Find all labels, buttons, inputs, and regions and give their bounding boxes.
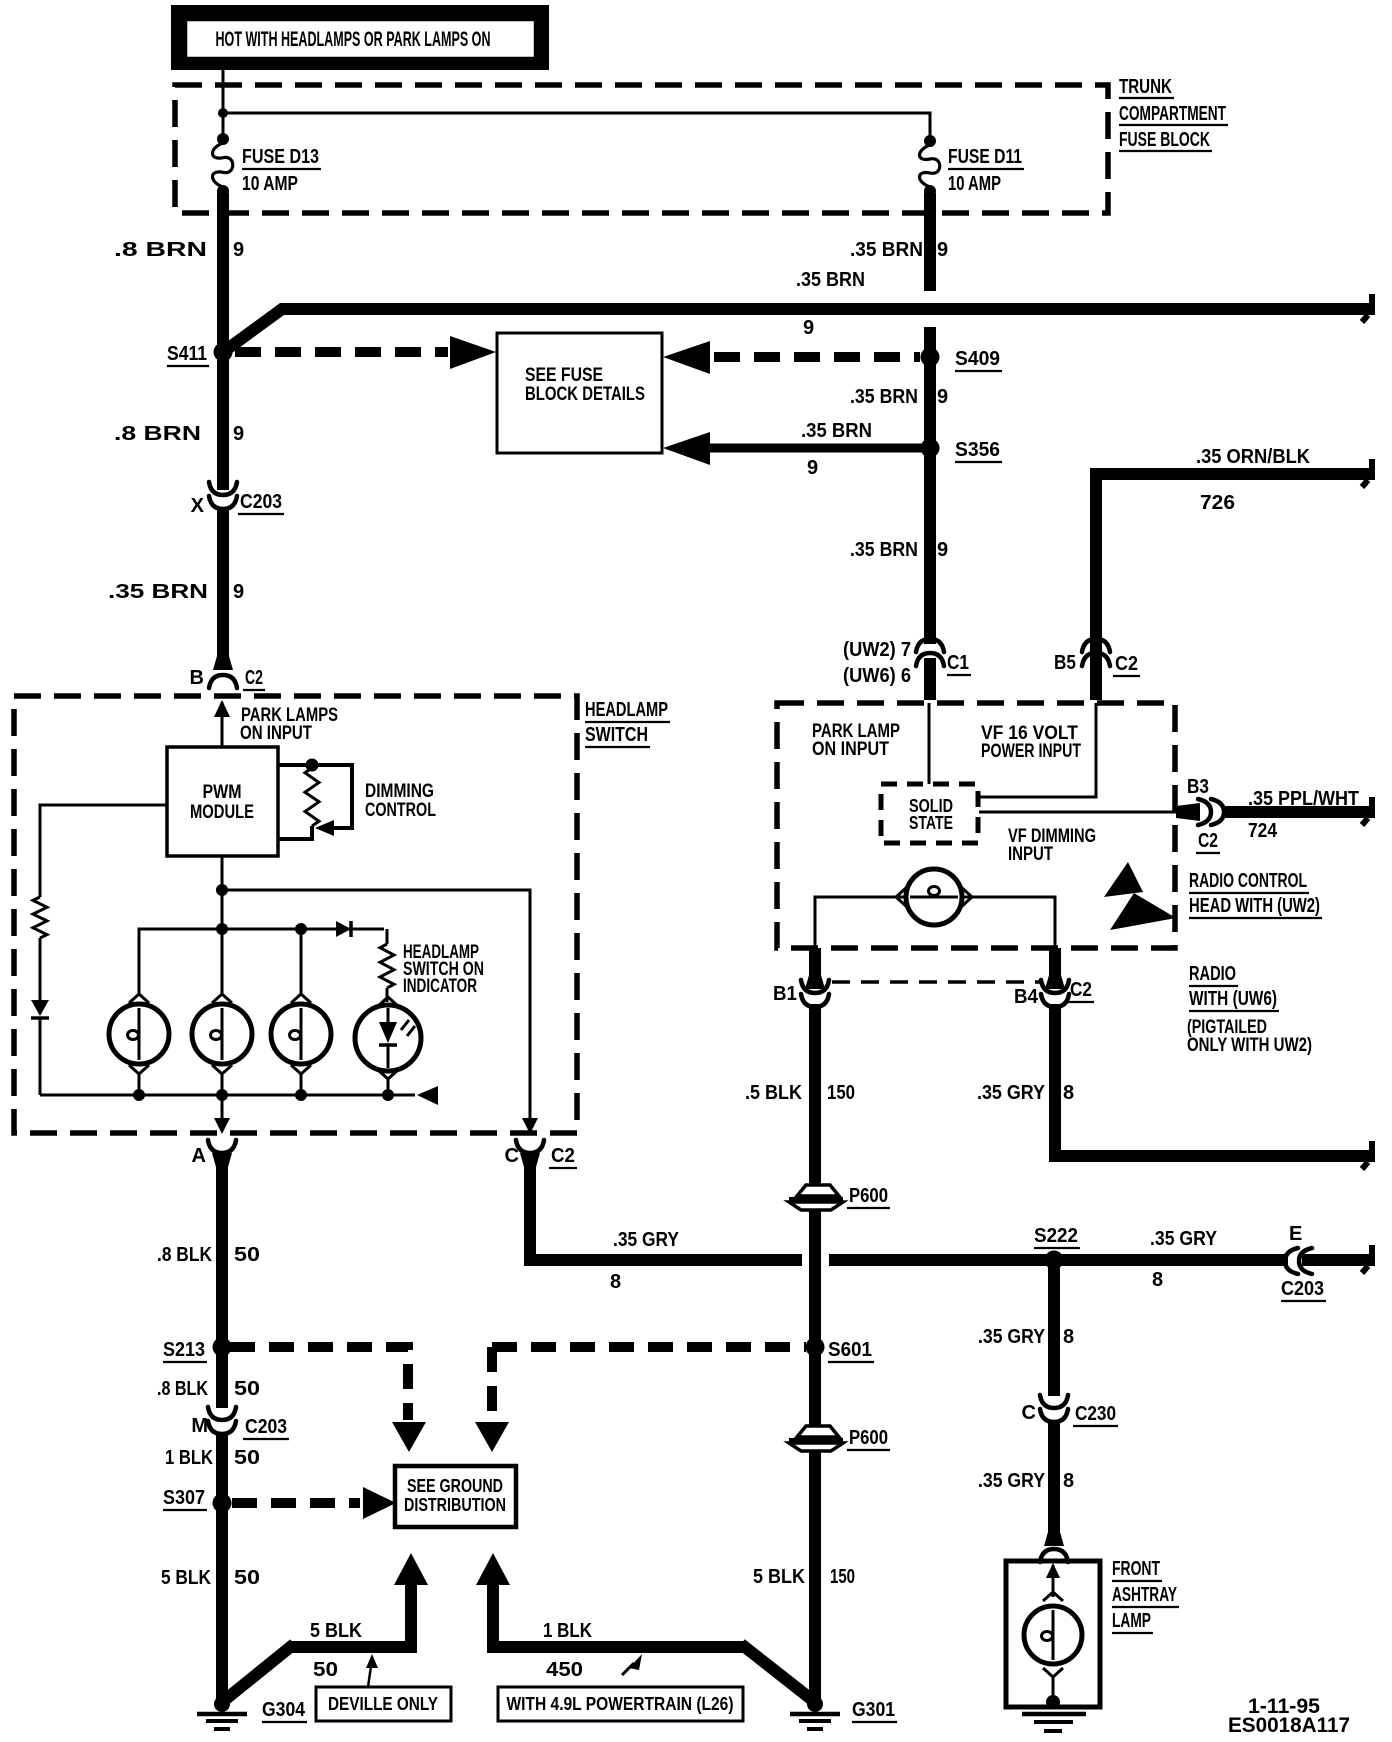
arrowhead up to ground distribution (right) xyxy=(476,1553,510,1585)
wire stub from B5 into radio box xyxy=(1090,658,1102,700)
svg-text:9: 9 xyxy=(803,317,814,339)
svg-text:9: 9 xyxy=(937,239,948,261)
off-page hook right xyxy=(1369,1245,1375,1262)
svg-text:150: 150 xyxy=(830,1566,855,1588)
wire .35 BRN 9 from fuse D11 down xyxy=(924,193,936,291)
svg-text:E: E xyxy=(1289,1223,1302,1245)
wire VF lamp to B4 xyxy=(962,897,1055,948)
wire from PWM module left to resistor xyxy=(40,805,167,897)
chevron below ashtray bulb xyxy=(1043,1668,1063,1677)
wire .35 PPL/WHT 724 to right edge xyxy=(1222,806,1375,818)
wire .35 GRY 8 from E C203 to right edge xyxy=(1302,1254,1375,1266)
connector at front ashtray lamp xyxy=(1040,1549,1068,1562)
svg-text:C2: C2 xyxy=(1198,830,1218,852)
wire .5 BLK 150 / 5 BLK 150 from B1 to G301 xyxy=(809,1004,821,1699)
wire .35 BRN 9 from S356 to C1 xyxy=(924,448,936,644)
lamp feed bus xyxy=(139,929,384,994)
svg-text:(UW2) 7: (UW2) 7 xyxy=(843,639,911,661)
svg-text:50: 50 xyxy=(234,1378,260,1400)
svg-text:726: 726 xyxy=(1200,492,1235,514)
svg-text:HOT WITH HEADLAMPS OR PARK LAM: HOT WITH HEADLAMPS OR PARK LAMPS ON xyxy=(216,28,491,51)
svg-text:WITH 4.9L POWERTRAIN (L26): WITH 4.9L POWERTRAIN (L26) xyxy=(507,1694,734,1714)
svg-text:S409: S409 xyxy=(955,348,1000,370)
svg-text:S601: S601 xyxy=(828,1339,872,1361)
junction fuse D13 bottom xyxy=(217,185,229,197)
svg-text:A: A xyxy=(192,1145,206,1167)
wire common bus to A output xyxy=(221,1095,224,1122)
arrowhead up into lamp xyxy=(1046,1563,1060,1578)
wire LED to common bus xyxy=(387,1079,390,1095)
svg-text:POWER INPUT: POWER INPUT xyxy=(981,741,1081,762)
svg-text:FUSE BLOCK: FUSE BLOCK xyxy=(1119,129,1210,151)
wire ashtray bulb to ground xyxy=(1052,1677,1055,1700)
wire resistor bottom to PWM module xyxy=(278,826,312,839)
svg-text:8: 8 xyxy=(610,1271,621,1293)
svg-text:C2: C2 xyxy=(551,1145,575,1167)
svg-text:10 AMP: 10 AMP xyxy=(242,173,298,195)
svg-text:FUSE D13: FUSE D13 xyxy=(242,146,319,168)
splice S213 xyxy=(213,1338,232,1357)
arrowhead down to ground distribution xyxy=(475,1422,509,1452)
junction lamp 3 feed xyxy=(295,923,307,935)
svg-text:CONTROL: CONTROL xyxy=(365,800,436,821)
headlamp switch (dashed box) xyxy=(14,696,577,1133)
junction resistor top xyxy=(306,759,319,772)
svg-text:S411: S411 xyxy=(167,343,207,365)
svg-text:8: 8 xyxy=(1063,1082,1074,1104)
arrowhead down at C xyxy=(522,1118,538,1134)
wire .35 GRY 8 continues xyxy=(829,1254,1288,1266)
junction fuse D13 top xyxy=(217,133,229,145)
junction xyxy=(382,1089,394,1101)
connector C203 (X) xyxy=(209,482,237,495)
off-page hook right xyxy=(1369,459,1375,476)
svg-text:150: 150 xyxy=(827,1082,855,1104)
PWM module box xyxy=(167,747,278,856)
wire park lamps on input xyxy=(221,702,224,748)
grommet P600 xyxy=(797,1185,839,1196)
svg-text:9: 9 xyxy=(937,539,948,561)
svg-text:.35 GRY: .35 GRY xyxy=(613,1229,680,1251)
dashed wire down xyxy=(487,1347,497,1420)
svg-text:.35 GRY: .35 GRY xyxy=(1150,1228,1218,1250)
svg-text:8: 8 xyxy=(1063,1326,1074,1348)
wire resistor to diode xyxy=(39,938,42,1000)
svg-text:INPUT: INPUT xyxy=(1008,844,1053,865)
resistor dimming control potentiometer xyxy=(305,768,319,826)
svg-text:5 BLK: 5 BLK xyxy=(161,1567,211,1589)
svg-text:MODULE: MODULE xyxy=(190,802,254,823)
svg-text:1 BLK: 1 BLK xyxy=(543,1620,592,1642)
off-page hook right xyxy=(1369,797,1375,814)
off-page hook right xyxy=(1369,1141,1375,1158)
svg-text:S213: S213 xyxy=(163,1339,205,1361)
ashtray lamp bulb xyxy=(1024,1606,1082,1664)
diagonal wire to G304 xyxy=(226,1644,294,1699)
diode left branch (cathode down) xyxy=(31,1000,49,1016)
svg-text:B1: B1 xyxy=(773,983,797,1005)
LED triangle xyxy=(379,1022,397,1043)
svg-text:.35 GRY: .35 GRY xyxy=(978,1470,1046,1492)
dashed pigtail line between B1 and B4 xyxy=(832,980,1040,984)
wire .35 BRN 9 from S409 to S356 xyxy=(924,357,936,448)
arrowhead up to ground distribution (left) xyxy=(394,1553,428,1585)
svg-text:P600: P600 xyxy=(849,1185,888,1207)
lamp common bus xyxy=(40,1094,415,1097)
fuse D13 xyxy=(213,143,233,187)
wire .8 BLK 50 from S213 to M C203 xyxy=(216,1347,228,1408)
svg-text:G304: G304 xyxy=(262,1699,306,1721)
svg-text:SEE FUSE: SEE FUSE xyxy=(525,365,603,386)
arrowhead xyxy=(366,1654,378,1668)
splice S409 xyxy=(921,348,940,367)
connector B C2 at headlamp switch xyxy=(209,675,237,688)
svg-text:SEE GROUND: SEE GROUND xyxy=(407,1476,503,1496)
diagonal wire to G301 xyxy=(741,1644,811,1699)
svg-text:450: 450 xyxy=(546,1659,583,1681)
svg-text:S307: S307 xyxy=(163,1487,205,1509)
splice S411 xyxy=(214,343,233,362)
dashed arrow from S409 to fuse block details xyxy=(714,352,920,362)
svg-text:DEVILLE ONLY: DEVILLE ONLY xyxy=(328,1694,438,1714)
svg-text:8: 8 xyxy=(1152,1269,1163,1291)
splice S307 xyxy=(213,1494,232,1513)
wire .8 BRN 9 from S411 to C203 xyxy=(217,352,229,490)
power feed label box HOT WITH HEADLAMPS OR PARK LAMPS ON xyxy=(171,5,549,70)
junction fuse D11 bottom xyxy=(924,185,936,197)
wire VF dimming input to B3 xyxy=(979,811,1178,814)
svg-text:B3: B3 xyxy=(1187,776,1209,798)
park lamp bulb 1 xyxy=(109,1004,169,1064)
wire .35 BRN 9 from C203 to headlamp switch xyxy=(217,508,229,668)
splice S601 xyxy=(806,1338,825,1357)
wire lamp3 to common bus xyxy=(300,1074,303,1095)
svg-text:50: 50 xyxy=(234,1567,260,1589)
arrowhead up park lamps on input xyxy=(214,700,230,717)
ESD warning symbol triangle 2 xyxy=(1110,893,1176,930)
wire park lamp on input to solid state xyxy=(928,703,931,784)
solid state box xyxy=(881,784,978,843)
wire VF lamp to B1 xyxy=(815,897,906,948)
connector E C203 xyxy=(1285,1248,1298,1274)
wire end flare at B xyxy=(213,656,233,670)
ground under ashtray lamp xyxy=(1022,1712,1086,1717)
svg-text:9: 9 xyxy=(233,239,244,261)
svg-text:M: M xyxy=(191,1415,208,1437)
svg-text:STATE: STATE xyxy=(909,813,953,833)
splice S222 xyxy=(1045,1251,1064,1270)
svg-text:.35 GRY: .35 GRY xyxy=(978,1326,1046,1348)
svg-text:8: 8 xyxy=(1063,1470,1074,1492)
svg-text:9: 9 xyxy=(807,457,818,479)
wire .35 GRY 8 from C to S222 xyxy=(530,1160,802,1260)
junction xyxy=(216,884,228,896)
ground G304 xyxy=(214,1696,230,1712)
ESD warning symbol triangle 1 xyxy=(1104,862,1143,897)
svg-text:.35 BRN: .35 BRN xyxy=(801,420,872,442)
front ashtray lamp box xyxy=(1006,1561,1100,1707)
wire dimming control loop xyxy=(278,765,352,828)
svg-text:724: 724 xyxy=(1248,820,1278,842)
wire VF 16 volt power input to solid state xyxy=(979,703,1096,797)
svg-text:G301: G301 xyxy=(852,1699,895,1721)
svg-text:.35 PPL/WHT: .35 PPL/WHT xyxy=(1248,788,1359,810)
svg-text:ASHTRAY: ASHTRAY xyxy=(1112,1584,1177,1606)
svg-text:ON INPUT: ON INPUT xyxy=(812,739,889,760)
svg-text:50: 50 xyxy=(234,1244,260,1266)
svg-text:COMPARTMENT: COMPARTMENT xyxy=(1119,103,1226,125)
box SEE GROUND DISTRIBUTION xyxy=(395,1466,516,1527)
wire .35 GRY 8 from B4 to right edge xyxy=(1055,1004,1375,1156)
grommet P600 xyxy=(797,1426,839,1437)
svg-text:RADIO CONTROL: RADIO CONTROL xyxy=(1189,870,1307,892)
resistor in headlamp switch left branch xyxy=(33,897,47,938)
svg-text:B4: B4 xyxy=(1014,986,1039,1008)
wire 5 BLK 50 deville xyxy=(289,1583,411,1647)
wire .35 GRY 8 from C230 to front ashtray lamp xyxy=(1048,1421,1060,1542)
connector C C2 at headlamp switch xyxy=(516,1140,544,1153)
svg-text:SWITCH: SWITCH xyxy=(585,724,648,746)
svg-text:S356: S356 xyxy=(955,439,1000,461)
svg-text:DIMMING: DIMMING xyxy=(365,781,434,802)
splice S356 xyxy=(921,439,940,458)
resistor headlamp switch on indicator xyxy=(380,944,394,988)
svg-text:FRONT: FRONT xyxy=(1112,1558,1160,1580)
arrowhead into box xyxy=(450,336,496,369)
svg-text:.35 BRN: .35 BRN xyxy=(850,539,918,561)
wire bus linking fuse D13 and fuse D11 tops xyxy=(223,113,930,141)
wire stub B1 xyxy=(809,948,821,986)
svg-text:9: 9 xyxy=(937,386,948,408)
junction fuse D11 top xyxy=(924,135,936,147)
svg-text:X: X xyxy=(191,495,205,517)
svg-text:.35 BRN: .35 BRN xyxy=(850,386,918,408)
arrowhead right to ground distribution xyxy=(363,1487,396,1519)
dashed wire S213 to ground distribution xyxy=(230,1347,408,1420)
svg-text:(UW6) 6: (UW6) 6 xyxy=(843,665,911,687)
wire 1 BLK 50 / 5 BLK 50 from M C203 to G304 xyxy=(216,1433,228,1699)
wire resistor to indicator LED xyxy=(386,988,389,1002)
wire 1 BLK 450 4.9L powertrain xyxy=(493,1583,746,1647)
junction xyxy=(218,108,228,118)
wire down to lamp 2 xyxy=(221,929,224,994)
svg-text:FUSE D11: FUSE D11 xyxy=(948,146,1022,168)
ground G301 xyxy=(807,1696,823,1712)
svg-text:C1: C1 xyxy=(947,652,969,674)
bus end arrowhead xyxy=(417,1086,438,1105)
connector B1 xyxy=(801,980,829,993)
box WITH 4.9L POWERTRAIN (L26) xyxy=(498,1687,743,1721)
svg-text:C203: C203 xyxy=(1281,1278,1324,1300)
wire stub B4 xyxy=(1049,948,1061,986)
dashed wire S601 to ground distribution xyxy=(492,1342,806,1352)
svg-text:HEAD WITH (UW2): HEAD WITH (UW2) xyxy=(1189,895,1320,917)
LED light rays xyxy=(401,1020,415,1036)
junction lamp 2 feed xyxy=(216,923,228,935)
box SEE FUSE BLOCK DETAILS xyxy=(497,333,662,453)
junction xyxy=(216,1089,228,1101)
svg-text:.35 BRN: .35 BRN xyxy=(796,269,865,291)
wire .35 ORN/BLK 726 from B5 C2 to right edge xyxy=(1096,474,1375,658)
chevron above ashtray bulb xyxy=(1043,1592,1063,1601)
park lamp bulb 3 xyxy=(271,1004,331,1064)
off-page hook right xyxy=(1369,294,1375,311)
svg-text:.35 ORN/BLK: .35 ORN/BLK xyxy=(1196,446,1311,468)
wire diode to indicator resistor xyxy=(386,929,389,944)
box DEVILLE ONLY xyxy=(316,1687,451,1721)
wire to C output of headlamp switch xyxy=(222,890,530,1122)
svg-text:C230: C230 xyxy=(1075,1403,1116,1425)
svg-text:RADIO: RADIO xyxy=(1189,963,1236,985)
junction at box bottom xyxy=(1046,1695,1060,1709)
junction xyxy=(133,1089,145,1101)
svg-text:5 BLK: 5 BLK xyxy=(753,1566,805,1588)
svg-text:.8 BLK: .8 BLK xyxy=(157,1244,212,1266)
arrowhead xyxy=(629,1654,642,1670)
svg-text:.8 BRN: .8 BRN xyxy=(114,423,201,445)
svg-text:.8 BLK: .8 BLK xyxy=(157,1378,208,1400)
wire into ashtray lamp xyxy=(1052,1565,1055,1597)
arrowhead into box xyxy=(663,432,710,465)
svg-text:.8 BRN: .8 BRN xyxy=(114,239,207,261)
svg-text:HEADLAMP: HEADLAMP xyxy=(585,699,668,721)
svg-text:DISTRIBUTION: DISTRIBUTION xyxy=(404,1495,506,1515)
svg-text:ONLY WITH UW2): ONLY WITH UW2) xyxy=(1187,1035,1312,1056)
svg-text:C203: C203 xyxy=(240,491,282,513)
svg-text:ON INPUT: ON INPUT xyxy=(240,723,312,744)
svg-text:PWM: PWM xyxy=(203,782,242,803)
svg-text:5 BLK: 5 BLK xyxy=(310,1620,362,1642)
VF display lamp in radio control head xyxy=(906,869,962,925)
svg-text:1 BLK: 1 BLK xyxy=(165,1447,213,1469)
svg-text:.35 GRY: .35 GRY xyxy=(977,1082,1046,1104)
svg-text:ES0018A117: ES0018A117 xyxy=(1228,1714,1350,1737)
arrowhead down to ground distribution xyxy=(392,1422,426,1452)
fuse D11 xyxy=(920,145,940,187)
svg-text:.5 BLK: .5 BLK xyxy=(745,1082,802,1104)
wire from hot feed down to fuse D13 xyxy=(222,68,225,139)
svg-text:10 AMP: 10 AMP xyxy=(948,173,1001,195)
arrowhead into box xyxy=(663,341,710,374)
svg-text:S222: S222 xyxy=(1034,1225,1078,1247)
svg-text:C203: C203 xyxy=(245,1416,287,1438)
connector M C203 xyxy=(208,1407,236,1420)
arrowhead down at A xyxy=(214,1118,230,1134)
wire PWM module output down xyxy=(221,856,224,929)
connector A at headlamp switch xyxy=(208,1140,236,1153)
svg-text:INDICATOR: INDICATOR xyxy=(403,976,477,997)
radio control head (dashed box) xyxy=(777,703,1175,948)
callout arrow 4.9L xyxy=(622,1663,634,1675)
svg-text:C2: C2 xyxy=(245,667,263,689)
svg-text:9: 9 xyxy=(233,423,244,445)
wire lamp2 to common bus xyxy=(221,1074,224,1095)
svg-text:P600: P600 xyxy=(849,1427,888,1449)
wire diode to lamp common bus xyxy=(39,1018,42,1095)
wire stub from C1 into radio box xyxy=(924,658,936,700)
LED headlamp switch on indicator xyxy=(355,1005,421,1071)
wire .8 BLK 50 from A to S213 xyxy=(216,1160,228,1347)
wiper arrowhead dimming control xyxy=(315,820,334,836)
svg-text:.35 BRN: .35 BRN xyxy=(108,581,208,603)
svg-text:TRUNK: TRUNK xyxy=(1119,76,1172,98)
svg-text:C: C xyxy=(505,1145,519,1167)
svg-text:C2: C2 xyxy=(1070,979,1092,1001)
dashed wire S307 to ground distribution xyxy=(232,1498,360,1508)
connector C C230 xyxy=(1040,1395,1068,1408)
svg-text:LAMP: LAMP xyxy=(1112,1610,1151,1632)
wire .35 BRN 9 arrow from S356 to fuse block details xyxy=(708,444,924,453)
svg-text:B5: B5 xyxy=(1054,652,1076,674)
wire .8 BRN 9 from fuse D13 to S411 xyxy=(217,193,229,352)
svg-text:50: 50 xyxy=(234,1447,260,1469)
svg-text:C: C xyxy=(1022,1402,1036,1424)
svg-text:B: B xyxy=(190,667,204,689)
park lamp bulb 2 xyxy=(192,1004,252,1064)
svg-text:50: 50 xyxy=(313,1659,338,1681)
svg-text:WITH (UW6): WITH (UW6) xyxy=(1189,988,1277,1010)
connector B3 C2 xyxy=(1176,803,1200,821)
wire .35 BRN 9 bus from S411 to right edge xyxy=(226,309,1375,350)
connector B5 C2 xyxy=(1082,639,1110,652)
svg-text:.35 BRN: .35 BRN xyxy=(850,239,923,261)
wire down to lamp 3 xyxy=(300,929,303,994)
wire lamp1 to common bus xyxy=(138,1074,141,1095)
svg-text:9: 9 xyxy=(233,581,244,603)
wire continues below bus crossing xyxy=(924,327,936,357)
callout arrow deville only xyxy=(368,1666,371,1687)
diode to indicator (anode left) xyxy=(336,921,351,937)
svg-text:BLOCK DETAILS: BLOCK DETAILS xyxy=(525,384,645,405)
dashed arrow from S411 to fuse block details xyxy=(235,347,448,357)
junction xyxy=(295,1089,307,1101)
trunk compartment fuse block (dashed) xyxy=(175,85,1108,213)
svg-text:C2: C2 xyxy=(1115,653,1138,675)
wire .35 GRY 8 from S222 to C230 xyxy=(1048,1260,1060,1396)
connector C1 xyxy=(916,639,944,652)
connector B4 C2 xyxy=(1041,980,1069,993)
